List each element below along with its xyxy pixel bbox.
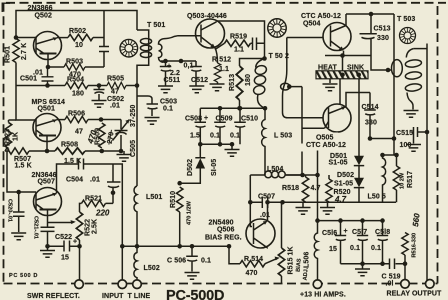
- resistor R514: [240, 261, 265, 267]
- wire rail175: [286, 174, 318, 176]
- resistor R508: [55, 148, 85, 154]
- node T503 primary tap: [386, 68, 391, 73]
- wire R517 ends: [396, 155, 398, 202]
- ground caps rail: [362, 264, 364, 269]
- capacitor C509: [214, 108, 226, 144]
- wire R506 to node: [88, 120, 121, 130]
- wire rail y108: [200, 107, 265, 109]
- svg-text:+: +: [73, 239, 77, 246]
- svg-text:R521: R521: [85, 196, 102, 203]
- wire feed to L506 rail: [317, 151, 319, 221]
- diode D501: [354, 79, 364, 166]
- capacitor C520: [13, 192, 25, 232]
- svg-text:2.5K: 2.5K: [92, 219, 99, 234]
- node R514 tap: [227, 244, 232, 249]
- ground C502: [92, 101, 107, 108]
- svg-text:S1-05: S1-05: [334, 181, 353, 188]
- ground R520: [327, 202, 329, 207]
- diode D502 right: [354, 166, 364, 188]
- resistor R501: [13, 39, 19, 63]
- svg-text:C501: C501: [20, 76, 37, 83]
- svg-text:L501: L501: [146, 194, 162, 201]
- svg-text:R522: R522: [85, 219, 92, 236]
- node R513 rail: [237, 106, 242, 111]
- wire collector Q504 to rail14: [346, 14, 394, 26]
- wire Q505 arrow to C514: [346, 93, 371, 110]
- transformer T501 secondary: [159, 39, 167, 63]
- svg-text:2.2: 2.2: [170, 70, 180, 77]
- svg-text:10 2W: 10 2W: [400, 172, 406, 189]
- svg-text:C5l7: C5l7: [352, 229, 367, 236]
- svg-text:C508: C508: [185, 116, 202, 123]
- node C514 bottom: [368, 136, 373, 141]
- svg-text:180: 180: [72, 91, 84, 98]
- svg-text:SWR REFLECT.: SWR REFLECT.: [27, 293, 80, 300]
- svg-text:C515: C515: [396, 130, 413, 137]
- svg-text:1.5: 1.5: [190, 133, 200, 140]
- svg-text:.0l: .0l: [386, 281, 394, 288]
- node L505 top: [380, 153, 385, 158]
- potentiometer R522: [76, 212, 82, 240]
- wire R514 drop: [229, 246, 240, 263]
- node C521 bottom: [45, 244, 50, 249]
- ground R512: [217, 82, 219, 84]
- svg-text:37-250: 37-250: [130, 105, 137, 127]
- svg-text:Q504: Q504: [303, 21, 321, 28]
- transistor Q504: [323, 23, 351, 51]
- ground emitter row: [123, 151, 125, 154]
- resistor R506: [65, 116, 88, 122]
- svg-text:R509: R509: [95, 128, 102, 145]
- svg-text:0.1: 0.1: [350, 245, 360, 252]
- transformer T503 secondary: [406, 49, 413, 58]
- svg-text:.01: .01: [90, 177, 100, 184]
- resistor R523: [5, 123, 11, 149]
- node R506 R509: [99, 117, 104, 122]
- node C518 top: [380, 218, 385, 223]
- capacitor C503: [137, 96, 158, 116]
- resistor R510: [177, 187, 183, 212]
- wire R522 bottom to SWR terminal: [79, 240, 81, 280]
- svg-text:PC-500D: PC-500D: [166, 288, 224, 300]
- inductor L501: [134, 86, 137, 247]
- wire T503 secondary top link: [413, 48, 427, 50]
- ground C515: [413, 137, 415, 144]
- svg-text:+: +: [204, 115, 208, 122]
- label CTC A50-12 Q505: [304, 140, 348, 149]
- svg-text:C522: C522: [55, 234, 72, 241]
- wire emitter arrow to R502: [57, 37, 68, 39]
- resistor R516: [402, 233, 408, 256]
- svg-text:C513: C513: [374, 26, 391, 33]
- svg-text:C521-.01: C521-.01: [33, 216, 39, 239]
- wire emitter Q503 to R512: [215, 48, 218, 63]
- wire R501 down to bus: [15, 63, 17, 86]
- resistor R513: [239, 100, 241, 108]
- inductor L503: [262, 108, 265, 175]
- node T502 primary top: [262, 56, 267, 61]
- svg-text:.01: .01: [110, 103, 120, 110]
- svg-text:BlAS: BlAS: [296, 258, 303, 272]
- svg-text:R506: R506: [68, 111, 85, 118]
- transformer T501 primary: [137, 30, 149, 86]
- node C509 top: [218, 106, 223, 111]
- svg-text:1.1: 1.1: [219, 66, 229, 73]
- svg-text:15: 15: [61, 255, 69, 262]
- svg-text:2N5490: 2N5490: [209, 220, 234, 227]
- node C509 bottom: [218, 142, 223, 147]
- wire R521 left to pot top: [80, 203, 82, 212]
- ground C520: [11, 233, 26, 240]
- resistor R517: [393, 166, 399, 190]
- svg-text:R508: R508: [61, 142, 78, 149]
- wire R516 ends: [404, 255, 406, 264]
- svg-text:R516-330: R516-330: [412, 233, 418, 258]
- svg-text:INPUT: INPUT: [102, 293, 124, 300]
- capacitor C519: [390, 259, 395, 270]
- capacitor C522: [64, 241, 80, 252]
- svg-text:0.1: 0.1: [230, 133, 240, 140]
- svg-text:D502: D502: [187, 159, 194, 176]
- node emitter Q502: [46, 65, 51, 70]
- svg-text:560: 560: [411, 212, 422, 227]
- resistor R503: [64, 64, 85, 70]
- wire right rail x427: [426, 44, 428, 281]
- potentiometer R515: [278, 248, 284, 276]
- svg-text:C507: C507: [258, 194, 275, 201]
- terminal RELAY 1: [401, 280, 410, 289]
- resistor R504: [65, 82, 88, 88]
- capacitor C506: [186, 246, 198, 271]
- terminal T LINE: [133, 280, 142, 289]
- node C507 left: [248, 200, 253, 205]
- svg-text:C509: C509: [216, 116, 233, 123]
- svg-text:T 503: T 503: [397, 16, 415, 23]
- wire R502 to bypass cap: [93, 11, 104, 68]
- ground C521: [47, 246, 49, 250]
- svg-text:4.7: 4.7: [334, 195, 347, 204]
- node C517 top: [360, 218, 365, 223]
- wire bias rail right part: [302, 201, 396, 203]
- node rail175 feed: [315, 173, 320, 178]
- capacitor C517: [357, 221, 368, 264]
- svg-text:C512: C512: [191, 77, 208, 84]
- node C508 bottom: [198, 142, 203, 147]
- svg-text:T 50 2: T 50 2: [269, 53, 289, 60]
- svg-text:L504: L504: [267, 166, 283, 173]
- svg-text:R504: R504: [67, 77, 84, 84]
- node emitter Q501: [45, 149, 50, 154]
- node C511: [163, 59, 168, 64]
- wire R520 ends: [328, 175, 330, 202]
- ground C503: [145, 118, 160, 125]
- node bus T501 line: [135, 83, 140, 88]
- resistor R520: [326, 179, 332, 202]
- resistor R518: [305, 175, 307, 178]
- svg-text:R513: R513: [229, 74, 236, 91]
- transistor Q507: [34, 188, 62, 227]
- wire R503 run: [48, 66, 104, 68]
- svg-text:SI-05: SI-05: [211, 159, 218, 176]
- transformer T501 core: [120, 39, 138, 57]
- node R517 top: [394, 153, 399, 158]
- ground R518: [302, 202, 304, 207]
- arrow C505: [113, 120, 130, 141]
- capacitor bypass Q502: [99, 47, 109, 52]
- svg-text:470: 470: [246, 270, 258, 277]
- svg-text:2N3866: 2N3866: [28, 5, 53, 12]
- svg-text:L50 5: L50 5: [368, 194, 386, 201]
- node L501 bottom rail: [135, 244, 140, 249]
- svg-text:47: 47: [75, 129, 83, 136]
- svg-text:HEAT: HEAT: [318, 65, 338, 72]
- wire C514 to feed column: [370, 138, 394, 140]
- resistor R519: [225, 40, 251, 46]
- node hs q504: [340, 73, 345, 78]
- resistor R507: [5, 148, 29, 154]
- svg-text:C514: C514: [362, 104, 379, 111]
- node C518 bottom: [380, 261, 385, 266]
- svg-text:C5l8: C5l8: [375, 229, 390, 236]
- ground heat sink: [329, 79, 331, 83]
- svg-text:220: 220: [95, 209, 110, 218]
- diode D502 left: [195, 144, 205, 158]
- node R504/C502: [97, 83, 102, 88]
- svg-text:C503: C503: [160, 99, 177, 106]
- capacitor C515: [412, 127, 428, 137]
- node C506: [190, 244, 195, 249]
- wire Q506 base drop: [250, 202, 252, 226]
- wire secondary top to Q503 base: [167, 36, 202, 39]
- node L506 top: [315, 218, 320, 223]
- capacitor C513: [360, 14, 377, 56]
- svg-text:1K: 1K: [288, 246, 295, 255]
- capacitor C512: [190, 61, 202, 86]
- svg-text:R 514: R 514: [244, 256, 263, 263]
- svg-text:330: 330: [377, 35, 389, 42]
- svg-text:Q506: Q506: [217, 227, 235, 234]
- svg-text:C511: C511: [164, 77, 181, 84]
- svg-text:RELAY OUTPUT: RELAY OUTPUT: [387, 291, 442, 298]
- capacitor C504: [76, 159, 122, 247]
- wire collector Q501 to R506: [57, 119, 66, 121]
- svg-text:C 519: C 519: [382, 274, 401, 281]
- ground C512: [189, 86, 204, 93]
- svg-text:L506: L506: [304, 252, 311, 268]
- transistor Q506: [246, 202, 275, 248]
- capacitor C502: [94, 86, 105, 101]
- capacitor C518: [377, 221, 388, 264]
- ground C506: [185, 273, 200, 280]
- wire drop to Q501 base: [16, 86, 36, 121]
- wiper R522: [48, 222, 73, 224]
- inductor L504: [250, 174, 304, 176]
- node rail175 Q505emitter: [300, 173, 305, 178]
- wire emitter row y151: [5, 150, 9, 152]
- svg-text:CTC A50-12: CTC A50-12: [301, 13, 341, 20]
- svg-text:330: 330: [365, 120, 377, 127]
- wire R507-R508: [29, 150, 55, 152]
- svg-text:C510: C510: [241, 116, 258, 123]
- resistor R502: [68, 34, 93, 40]
- wire caps rail bottom y263: [341, 263, 406, 265]
- transformer T503 core: [399, 27, 415, 43]
- node R510 bottom: [177, 244, 182, 249]
- transformer T503 primary loop: [392, 60, 403, 77]
- svg-text:R510: R510: [170, 191, 177, 208]
- svg-text:BIAS REG.: BIAS REG.: [205, 235, 242, 242]
- wire C513 column to T503 primary tap: [371, 56, 392, 71]
- capacitor C516: [335, 221, 346, 264]
- transformer T502 core: [268, 19, 286, 37]
- node base Q502: [14, 35, 19, 40]
- node emitter Q504: [340, 53, 345, 58]
- wire T502 primary bottom to rail: [258, 94, 265, 108]
- capacitor C511: [160, 61, 172, 86]
- node C520 tap: [16, 190, 21, 195]
- wiper R515: [265, 259, 277, 264]
- svg-text:C505: C505: [130, 140, 137, 157]
- transistor Q505: [323, 104, 351, 132]
- node gnd tap: [230, 142, 235, 147]
- inductor L506: [314, 221, 317, 281]
- wire rail y144: [200, 143, 233, 145]
- capacitor C507: [262, 197, 267, 209]
- svg-text:0.1: 0.1: [371, 245, 381, 252]
- node C505 bottom: [119, 149, 124, 154]
- svg-text:C504: C504: [66, 177, 83, 184]
- svg-text:180: 180: [245, 74, 252, 86]
- wire base Q502: [16, 37, 36, 39]
- node R521 riser: [111, 190, 116, 195]
- svg-text:.01: .01: [260, 212, 270, 219]
- label 270 struck: [106, 129, 115, 145]
- svg-text:R518: R518: [282, 185, 299, 192]
- svg-text:Q507: Q507: [38, 179, 56, 186]
- wire R518 bottom: [305, 201, 307, 203]
- svg-text:R519: R519: [230, 34, 247, 41]
- wire bus y85: [16, 85, 137, 87]
- wire R508 to C505 node: [85, 150, 121, 152]
- capacitor C501: [42, 67, 54, 86]
- wire R518 top tap: [305, 175, 307, 177]
- svg-text:R515: R515: [288, 257, 295, 274]
- svg-text:100: 100: [400, 142, 412, 149]
- svg-text:C5l6: C5l6: [322, 230, 337, 237]
- wire R510 to bottom rail: [179, 212, 181, 246]
- transistor Q501: [33, 114, 61, 152]
- wire emitter to R519: [215, 43, 225, 49]
- svg-text:+: +: [344, 228, 348, 235]
- wire INPUT drop: [121, 246, 123, 280]
- svg-text:C520-.01: C520-.01: [7, 199, 13, 222]
- svg-text:1.5 K: 1.5 K: [15, 163, 32, 170]
- wire top rail from base node to T501: [16, 11, 137, 38]
- svg-text:L 503: L 503: [274, 133, 292, 140]
- capacitor C514: [364, 110, 376, 139]
- inductor L502: [134, 246, 137, 280]
- node C516 top: [338, 218, 343, 223]
- svg-text:Q503-40446: Q503-40446: [187, 13, 227, 20]
- terminal +13: [313, 280, 322, 289]
- svg-text:T 501: T 501: [147, 22, 165, 29]
- wire top link L505 R517: [383, 154, 397, 156]
- svg-text:S1-05: S1-05: [329, 160, 348, 167]
- svg-text:Q501: Q501: [38, 106, 56, 113]
- wire R513 top: [240, 59, 265, 67]
- capacitor C508: [195, 108, 207, 144]
- node C522/R522: [77, 244, 82, 249]
- resistor R505: [107, 82, 126, 88]
- svg-text:4.7: 4.7: [311, 185, 321, 192]
- transistor Q502: [34, 32, 62, 68]
- svg-text:SINK: SINK: [347, 65, 364, 72]
- svg-text:D502: D502: [337, 172, 354, 179]
- wire R515 top to rail: [281, 202, 283, 283]
- wire secondary to Q504 base: [287, 37, 323, 39]
- node hs diode: [356, 73, 361, 78]
- svg-text:2.7 K: 2.7 K: [21, 43, 28, 60]
- wire C521 to C522: [48, 245, 65, 247]
- capacitor C510: [234, 108, 246, 144]
- svg-text:1.1: 1.1: [234, 47, 244, 54]
- node R515 drop: [280, 200, 285, 205]
- label Q505: [314, 133, 338, 142]
- ground T503 secondary: [404, 111, 419, 118]
- svg-text:R517: R517: [407, 171, 414, 188]
- resistor R509: [99, 123, 105, 148]
- capacitor C521: [41, 227, 55, 246]
- capacitor C505 variable: [115, 131, 128, 151]
- resistor R512: [214, 63, 220, 82]
- node INPUT corner: [120, 244, 125, 249]
- capacitor R519 series: [251, 38, 265, 51]
- svg-text:+: +: [167, 63, 171, 70]
- svg-text:R502: R502: [69, 28, 86, 35]
- wire R523 ends: [9, 120, 17, 151]
- svg-text:0,1: 0,1: [184, 63, 194, 70]
- svg-text:1K: 1K: [13, 132, 20, 141]
- node C513 top: [369, 12, 374, 17]
- node feed column: [392, 136, 397, 141]
- wire secondary tap to bias rail: [289, 87, 302, 175]
- svg-text:CTC A50-12: CTC A50-12: [306, 142, 346, 149]
- svg-text:0.1: 0.1: [201, 258, 211, 265]
- node T502 secondary tap: [287, 84, 292, 89]
- wire L504 to bias rail corner: [249, 175, 251, 202]
- wire bias rail: [250, 201, 302, 203]
- terminal SWR: [75, 280, 84, 289]
- transformer T502 secondary: [283, 38, 323, 118]
- wire collector Q507 up to C504: [57, 164, 77, 193]
- svg-text:10: 10: [75, 42, 83, 49]
- wire R521 riser: [106, 193, 114, 204]
- svg-text:R 512: R 512: [212, 57, 231, 64]
- node C515 rail: [425, 130, 430, 135]
- node R516 bottom: [403, 261, 408, 266]
- node C517 bottom: [360, 261, 365, 266]
- svg-text:T LINE: T LINE: [128, 293, 151, 300]
- svg-text:0.1: 0.1: [163, 106, 173, 113]
- svg-text:Q502: Q502: [35, 12, 53, 19]
- transistor Q503: [196, 19, 225, 48]
- heat sink bar: [316, 71, 368, 79]
- wire collector Q503 to T502: [217, 21, 265, 59]
- node R510 top: [177, 181, 182, 186]
- wire emitter Q504 row: [325, 51, 371, 71]
- transformer T502 primary winding: [254, 64, 267, 75]
- wire node to C512: [161, 60, 196, 62]
